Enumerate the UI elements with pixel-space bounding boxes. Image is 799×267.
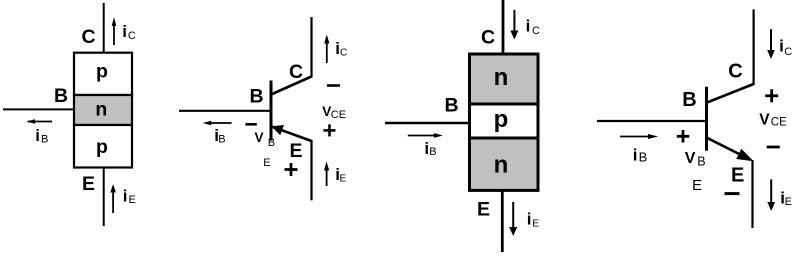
value label iE	[123, 187, 136, 206]
p region (base block)	[470, 104, 539, 138]
value label iC	[779, 37, 792, 58]
svg-text:C: C	[340, 47, 347, 58]
svg-text:i: i	[35, 126, 40, 145]
svg-text:B: B	[268, 137, 275, 149]
value label iB	[35, 126, 48, 146]
current arrow iB (leftward)	[26, 119, 52, 123]
svg-text:n: n	[494, 64, 509, 91]
svg-text:C: C	[784, 46, 792, 58]
wire: emitter lead (bottom)	[501, 190, 504, 252]
n region (top block, gray)	[470, 54, 539, 104]
svg-text:p: p	[96, 136, 108, 158]
current arrow iE (upward)	[110, 184, 116, 213]
wire: base lead	[179, 110, 271, 112]
minus sign (VBE polarity, near bar)	[245, 123, 256, 126]
svg-text:C: C	[128, 30, 136, 42]
plus sign (VBE polarity)	[285, 163, 298, 176]
svg-text:CE: CE	[771, 117, 787, 129]
minus sign (VCE top polarity)	[327, 84, 340, 87]
svg-text:V: V	[255, 130, 264, 145]
wire: collector lead (top)	[103, 3, 105, 53]
current arrow iE (upward)	[324, 162, 329, 187]
current arrow iC (upward)	[324, 35, 329, 64]
emitter diagonal with inward arrow (PNP)	[271, 125, 311, 141]
wire: base lead	[597, 120, 707, 122]
current arrow iB (leftward)	[203, 121, 232, 125]
svg-text:C: C	[289, 61, 303, 83]
wire: collector lead (vertical)	[310, 17, 312, 78]
wire: base lead (left)	[385, 122, 468, 124]
current arrow iC (upward)	[112, 17, 117, 45]
wire: emitter lead (vertical)	[310, 140, 312, 200]
svg-text:B: B	[218, 134, 225, 146]
svg-text:E: E	[532, 218, 539, 230]
svg-text:i: i	[122, 22, 127, 41]
svg-text:i: i	[123, 187, 128, 206]
svg-text:i: i	[527, 210, 532, 229]
svg-text:C: C	[532, 25, 540, 37]
value label iC	[122, 22, 136, 42]
current arrow iB (rightward)	[620, 134, 658, 139]
svg-text:p: p	[96, 61, 108, 83]
wire: collector lead (top)	[502, 0, 505, 54]
svg-text:B: B	[444, 95, 458, 117]
svg-text:E: E	[340, 173, 347, 184]
emitter diagonal with outward arrow (NPN)	[707, 138, 754, 162]
current arrow iB (rightward)	[408, 133, 443, 138]
wire: emitter lead (bottom)	[103, 168, 105, 227]
svg-text:CE: CE	[331, 109, 346, 121]
svg-text:n: n	[494, 152, 509, 179]
svg-text:V: V	[759, 111, 770, 128]
value label VCE	[759, 111, 787, 128]
svg-text:C: C	[81, 26, 95, 48]
svg-text:B: B	[639, 149, 648, 164]
base bar of symbol	[705, 87, 708, 151]
svg-text:E: E	[731, 165, 744, 187]
value label iC	[526, 16, 540, 37]
current arrow iE (downward)	[767, 179, 775, 211]
svg-text:E: E	[263, 157, 270, 169]
svg-text:E: E	[477, 199, 490, 221]
current arrow iC (downward)	[510, 10, 518, 40]
plus sign (VCE top polarity)	[765, 89, 778, 102]
svg-text:E: E	[129, 194, 136, 206]
svg-text:i: i	[526, 16, 531, 35]
svg-text:E: E	[785, 196, 792, 208]
p region (top block)	[74, 53, 132, 95]
svg-text:B: B	[249, 86, 263, 108]
svg-text:n: n	[95, 99, 107, 121]
svg-text:B: B	[697, 155, 705, 169]
value label iB	[424, 139, 436, 158]
base bar of symbol	[270, 81, 273, 141]
value label iC	[335, 39, 347, 58]
value label VBE (wrapped: VB / E)	[685, 150, 706, 194]
value label VBE (wrapped: VB / E)	[255, 130, 276, 169]
collector diagonal	[707, 84, 754, 103]
value label iB	[214, 126, 225, 146]
value label iE	[780, 189, 792, 209]
wire: base lead (left)	[3, 108, 74, 110]
svg-text:V: V	[685, 150, 696, 167]
svg-text:i: i	[633, 146, 638, 165]
value label VCE	[322, 104, 346, 121]
current arrow iE (downward)	[509, 202, 517, 236]
svg-text:p: p	[494, 106, 509, 133]
svg-text:i: i	[779, 37, 784, 56]
svg-text:B: B	[54, 85, 68, 107]
svg-text:B: B	[429, 146, 436, 158]
svg-text:E: E	[289, 140, 302, 162]
current arrow iC (downward)	[767, 29, 775, 59]
n region (base block, gray)	[74, 95, 132, 125]
minus sign (VBE polarity, under E)	[725, 192, 740, 195]
plus sign (VBE polarity, near bar)	[677, 130, 690, 143]
svg-text:E: E	[692, 177, 702, 194]
p region (bottom block)	[74, 125, 132, 168]
svg-text:C: C	[481, 27, 495, 49]
svg-text:B: B	[682, 89, 696, 111]
value label iE	[527, 210, 539, 230]
collector diagonal	[271, 77, 312, 95]
svg-text:E: E	[82, 173, 95, 195]
svg-text:C: C	[728, 61, 742, 83]
wire: emitter lead (vertical)	[751, 160, 753, 228]
plus sign (VCE bottom polarity)	[324, 124, 336, 136]
svg-text:B: B	[41, 134, 48, 146]
value label iB	[633, 146, 647, 165]
value label iE	[335, 165, 346, 184]
minus sign (VCE bottom polarity)	[767, 146, 780, 149]
n region (bottom block, gray)	[470, 138, 539, 190]
wire: collector lead (vertical)	[752, 9, 754, 85]
